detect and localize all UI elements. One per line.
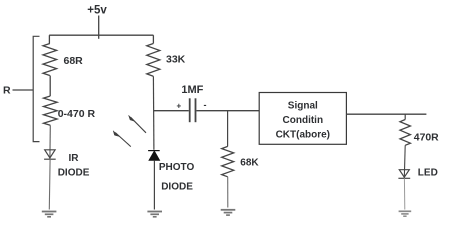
svg-text:+5v: +5v [87,5,107,17]
wire power rail [49,34,153,36]
wire LED to ground [403,178,405,209]
diode D3 LED [398,170,410,179]
resistor R5 470R [404,114,406,119]
wire 68K to ground [227,177,229,208]
ground (68K branch) [221,210,236,215]
svg-text:68K: 68K [240,158,259,169]
wire 0-470R to IR diode [49,125,51,159]
resistor R1 68R [43,44,57,76]
svg-text:LED: LED [418,168,438,179]
wire 33K to photodiode [152,76,155,150]
resistor R4 68K [227,111,229,147]
svg-text:Signal: Signal [288,101,318,112]
ground (LED branch) [399,211,412,216]
resistor R3 33K [147,44,160,77]
wire 68R to 0-470R [49,76,51,97]
wire photodiode branch to capacitor [154,110,189,112]
photodiode D2 PHOTO DIODE [148,151,160,161]
svg-text:Conditin: Conditin [283,115,324,126]
svg-text:-: - [204,100,207,110]
wire capacitor to junction and box [196,110,259,112]
svg-text:470R: 470R [414,133,439,144]
svg-text:PHOTO: PHOTO [159,162,195,173]
wire +5v lead [98,16,100,39]
light arrow a2 [113,131,131,147]
ground (IR diode branch) [42,212,57,217]
svg-text:68R: 68R [64,55,84,67]
light arrow a1 [129,115,146,133]
wire box output [346,113,426,115]
svg-text:0-470 R: 0-470 R [58,108,96,120]
svg-text:CKT(abore): CKT(abore) [276,130,330,141]
svg-text:33K: 33K [166,54,186,66]
svg-text:IR: IR [69,153,80,164]
block U1 Signal Conditin CKT(abore) [259,93,346,145]
svg-text:R: R [3,85,11,97]
wire IR diode to ground [48,159,51,210]
svg-text:1MF: 1MF [181,84,203,96]
svg-text:+: + [177,102,182,111]
wire left branch top [48,35,50,43]
wire photodiode to ground [153,160,155,209]
ground (photodiode branch) [147,212,162,217]
wire 470R to LED [403,145,406,178]
resistor R2 0-470 R [44,96,58,125]
diode D1 IR DIODE [44,150,56,159]
svg-text:DIODE: DIODE [58,167,90,178]
wire middle branch top [152,35,154,43]
svg-text:DIODE: DIODE [161,181,193,192]
